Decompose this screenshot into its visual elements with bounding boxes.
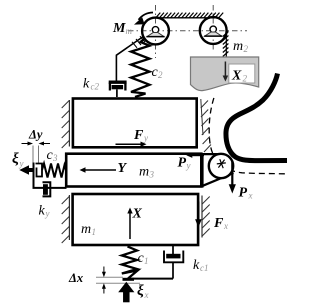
svg-text:x: x bbox=[144, 290, 149, 300]
dy dimension arrows bbox=[22, 143, 32, 145]
belt from left pulley to damper k_c2 bbox=[116, 36, 144, 82]
upper box bbox=[73, 99, 197, 148]
P_y arrow bbox=[190, 154, 204, 156]
pulley right bbox=[200, 17, 227, 44]
xi_y arrow bbox=[27, 168, 34, 172]
damper k_c2 bbox=[109, 82, 127, 97]
damper k_c1 bbox=[164, 246, 183, 279]
left wall lower bbox=[68, 195, 70, 240]
ceiling hatch ticks bbox=[156, 13, 224, 18]
center line vertical left pulley bbox=[155, 5, 157, 58]
svg-text:c2: c2 bbox=[91, 82, 100, 92]
svg-text:2: 2 bbox=[243, 74, 248, 84]
mass m_2 block bbox=[191, 57, 259, 91]
svg-text:y: y bbox=[19, 159, 24, 169]
torque arc M_m bbox=[139, 13, 154, 20]
dashed workpiece inner curve bbox=[209, 96, 285, 174]
spring c_1 bbox=[122, 247, 138, 279]
wheel asterisk bbox=[217, 159, 226, 168]
F_y arrow bbox=[116, 143, 143, 145]
svg-text:2: 2 bbox=[244, 44, 249, 54]
svg-text:y: y bbox=[45, 209, 50, 219]
pulley left bbox=[142, 18, 169, 45]
svg-text:2: 2 bbox=[158, 70, 163, 80]
contact wheel bbox=[209, 154, 233, 178]
left wall upper bbox=[68, 100, 70, 147]
bar right edge extension bbox=[201, 153, 203, 188]
svg-text:x: x bbox=[223, 221, 228, 231]
svg-text:y: y bbox=[186, 161, 191, 171]
svg-text:k: k bbox=[83, 77, 90, 92]
down arrow X_2 bbox=[224, 62, 226, 78]
svg-text:M: M bbox=[112, 21, 126, 36]
svg-text:Δx: Δx bbox=[68, 271, 83, 285]
F_x arrow bbox=[197, 202, 199, 221]
svg-text:k: k bbox=[193, 258, 200, 273]
svg-text:m: m bbox=[81, 222, 91, 237]
svg-text:m: m bbox=[126, 26, 133, 36]
wheel bracket slanted line bbox=[202, 173, 234, 186]
svg-text:ξ: ξ bbox=[12, 151, 19, 167]
right wall bbox=[201, 196, 203, 238]
dx dimension arrows bbox=[103, 267, 105, 276]
svg-text:m: m bbox=[233, 39, 243, 54]
svg-text:3: 3 bbox=[149, 170, 155, 180]
svg-text:X: X bbox=[132, 207, 143, 222]
thick workpiece curve bbox=[226, 74, 287, 161]
damper k_y bbox=[43, 182, 51, 196]
center line vertical right pulley bbox=[212, 5, 214, 52]
svg-text:X: X bbox=[231, 69, 242, 84]
svg-text:m: m bbox=[139, 165, 149, 180]
xi_x arrow bbox=[123, 292, 130, 303]
belt hatch ticks bbox=[132, 36, 145, 48]
svg-text:P: P bbox=[178, 156, 187, 171]
svg-text:ξ: ξ bbox=[137, 283, 144, 299]
dx witness lines bbox=[96, 276, 123, 278]
rope from right pulley to m_2 bbox=[225, 31, 227, 58]
dy witness lines bbox=[32, 146, 34, 164]
X_2 white box bbox=[229, 64, 255, 83]
svg-text:x: x bbox=[248, 191, 253, 201]
line damper bottom to plate bbox=[128, 278, 173, 280]
left bracket bbox=[34, 163, 67, 188]
center line horizontal through pulleys bbox=[128, 30, 247, 32]
P_x arrow bbox=[231, 161, 233, 186]
svg-text:Y: Y bbox=[118, 161, 128, 176]
X arrow bbox=[129, 212, 131, 240]
hatched band right of upper box bbox=[201, 99, 203, 135]
svg-text:k: k bbox=[39, 204, 46, 219]
wheel bracket top line bbox=[203, 153, 223, 155]
Y arrow bbox=[84, 169, 116, 171]
svg-text:F: F bbox=[213, 216, 224, 231]
svg-text:F: F bbox=[133, 128, 144, 143]
middle bar m_3 bbox=[66, 154, 201, 187]
svg-text:c1: c1 bbox=[200, 263, 209, 273]
svg-text:y: y bbox=[143, 133, 148, 143]
bottom box m_1 bbox=[73, 194, 199, 245]
spring c_2 bbox=[131, 39, 150, 97]
spring c_3 bbox=[42, 164, 66, 178]
spring anchor hook bbox=[36, 164, 43, 177]
svg-text:Δy: Δy bbox=[28, 128, 43, 142]
svg-text:3: 3 bbox=[52, 153, 58, 163]
svg-text:P: P bbox=[239, 186, 248, 201]
ground plate bbox=[123, 278, 135, 281]
svg-text:1: 1 bbox=[92, 227, 97, 237]
svg-text:1: 1 bbox=[144, 256, 149, 266]
ceiling belt line between pulleys bbox=[153, 17, 218, 19]
